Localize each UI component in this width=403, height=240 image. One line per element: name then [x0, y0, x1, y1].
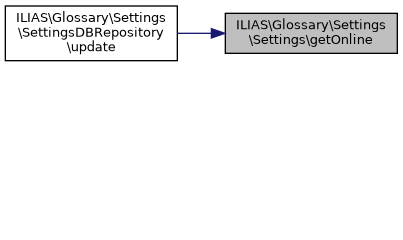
node Node1 label line 1: ILIAS\Glossary\Settings: [237, 18, 386, 34]
node Node1 label line 2: \Settings\getOnline: [249, 34, 373, 47]
node Node2: caller box "ILIAS\Glossary\Settings\SettingsDBRepository\update" (white, black border): [4, 5, 183, 62]
node Node2 label line 3: \update: [66, 42, 116, 55]
node Node2 label line 1: ILIAS\Glossary\Settings: [17, 11, 166, 25]
arrowhead at Node1 (midnightblue): [211, 27, 219, 39]
wire: edge shaft Node2->Node1 (midnightblue): [183, 27, 211, 39]
node Node2 label line 2: \SettingsDBRepository: [18, 27, 164, 42]
doxygen caller graph: ILIAS\Glossary\Settings\Settings\getOnline: [0, 0, 403, 67]
node Node1: current node box "ILIAS\Glossary\Settings\Settings\getOnline" (grey fill, black border): [219, 12, 398, 54]
